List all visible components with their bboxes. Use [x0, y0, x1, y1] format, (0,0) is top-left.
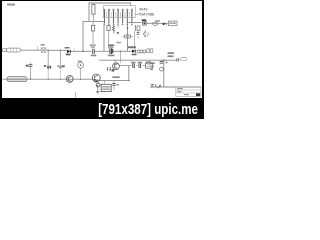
capacitor C6 series polarized [110, 48, 113, 54]
D2 label above [128, 46, 136, 48]
capacitor cluster D [136, 25, 140, 31]
wire x60.5 down [60, 50, 62, 66]
C10 label left [57, 65, 59, 67]
node dot B [163, 23, 165, 25]
wire oscillator chain [128, 22, 168, 25]
title block text marks [177, 88, 189, 95]
VC1 label [41, 44, 45, 46]
white schematic page [0, 0, 204, 119]
resistor R3 zigzag [112, 23, 114, 34]
trimmer caps after L2 [147, 49, 153, 53]
top-left faint label [7, 3, 15, 5]
wire VC1 to D1 [46, 49, 67, 51]
wire audio chain [119, 65, 145, 67]
capacitor C10 [60, 66, 61, 79]
rail label text [150, 62, 155, 70]
antenna connector J1 [1, 49, 6, 52]
D2 label below [132, 54, 137, 56]
jack J3 [146, 63, 153, 68]
bus end labels [168, 52, 175, 57]
coil L5 [78, 61, 84, 80]
wire pin stub x118.1 [117, 23, 119, 28]
C9 label left [44, 65, 46, 67]
varactor D3 [143, 21, 147, 25]
capacitor C14 on wire [151, 84, 156, 87]
transistor Q2 [92, 74, 100, 82]
LED indicator [160, 67, 164, 71]
capacitor C12 [133, 63, 135, 68]
svg-text:TDA7088: TDA7088 [138, 12, 154, 16]
ground under P1 [96, 87, 100, 94]
wire cluster D down [133, 31, 135, 49]
emitter arrow Q2 [94, 80, 96, 82]
bead label [155, 20, 160, 22]
wire top rail corner [89, 3, 131, 21]
capacitor C16 at bus end [177, 58, 179, 61]
capacitor C5 series [93, 49, 95, 54]
C5 label below [91, 55, 97, 57]
IC value label [138, 8, 154, 17]
frame tick bottom [75, 92, 77, 97]
wire x128.8 up [128, 66, 130, 81]
node junction x83 [82, 51, 84, 53]
wire junction dots [30, 79, 81, 80]
trimmer capacitor VC1 [41, 48, 46, 53]
C12 label [131, 62, 136, 63]
capacitor C9 [47, 66, 51, 79]
resistor R6 [109, 67, 111, 71]
diode D1 [67, 50, 70, 53]
wire D1 to C5 [71, 50, 92, 52]
jack J3 label [146, 61, 151, 62]
junction label [116, 42, 121, 44]
capacitor C11 [112, 81, 119, 90]
capacitor C4 [137, 31, 140, 39]
Q3 base label [112, 69, 115, 71]
varactor D3 label [142, 19, 147, 21]
svg-text:5T: 5T [147, 34, 150, 38]
wire C5 to C6 [95, 50, 111, 52]
wire rail x83 down [82, 21, 84, 51]
title block [176, 87, 201, 96]
C10 label right [62, 65, 65, 67]
capacitor C2 top box [92, 21, 95, 44]
L2 coil label [26, 65, 29, 67]
wire pin rail x103.5 [103, 23, 105, 51]
wire x120.4 down to Q3 [119, 51, 121, 63]
bus wire y60 [99, 59, 177, 61]
D1 label below [66, 54, 71, 56]
C13 label [138, 62, 143, 63]
wire FL1 to VC1 [21, 49, 42, 51]
transistor Q1 [66, 76, 73, 83]
bar antenna L3 [7, 77, 27, 82]
C6 label below [108, 55, 115, 57]
arrow mark [157, 85, 160, 88]
cap on rail C15 [160, 61, 168, 64]
battery B1 [101, 81, 111, 92]
capacitor C3 [107, 23, 110, 49]
wire x163 down [163, 60, 165, 87]
node junction x163 [163, 59, 165, 61]
ferrite bead FB1 [153, 22, 158, 25]
resistor R5 [107, 67, 109, 71]
earphone jack J2 [168, 21, 177, 25]
pin number labels [104, 24, 133, 26]
op-amp IC U1 TDA7088 [103, 6, 135, 18]
ceramic filter FL1 [7, 48, 21, 52]
bottom right wire y87 [150, 86, 201, 88]
node dot bus x115.2 [115, 60, 116, 61]
capacitor C8 vertical [29, 63, 33, 80]
C6 label above [108, 44, 114, 47]
box at bus end [181, 57, 187, 60]
tick node2 [73, 50, 75, 52]
wire J1 to FL1 [5, 49, 8, 51]
wire C6 right [113, 50, 132, 52]
node junction x120.4 [120, 51, 122, 53]
inductor L1 [144, 31, 151, 38]
arrow tick [165, 23, 167, 25]
node dot chain x60.5 [60, 50, 62, 52]
inductor L2 [137, 50, 147, 53]
connector P1 circle [96, 81, 100, 87]
node dot pin rail [127, 27, 129, 29]
node dot chain x48.2 [47, 50, 49, 52]
capacitor C13 [139, 63, 141, 68]
bottom wire left [3, 79, 130, 80]
wire bus to Q3 [114, 60, 116, 63]
label above bottom wire [112, 76, 119, 78]
resistor R1 [92, 3, 95, 21]
R3 value label [117, 32, 119, 34]
wire IC right stub [135, 14, 138, 16]
wire x48.2 down [47, 50, 49, 66]
wire to IC left [83, 20, 104, 22]
resistor R4 horizontal [122, 35, 132, 38]
C5 label above [90, 44, 97, 47]
node junction x128.8 [128, 80, 130, 82]
D1 label above [65, 47, 70, 49]
IC pins bottom row [104, 18, 131, 24]
wire pin x127.8 down [127, 23, 129, 51]
svg-text:[791x387] upic.me: [791x387] upic.me [98, 102, 198, 118]
tick node [36, 47, 38, 50]
transistor Q3 [113, 63, 120, 70]
title block stamp [196, 93, 200, 96]
svg-text:4049: 4049 [139, 8, 147, 12]
diode D2 varicap [132, 50, 135, 53]
